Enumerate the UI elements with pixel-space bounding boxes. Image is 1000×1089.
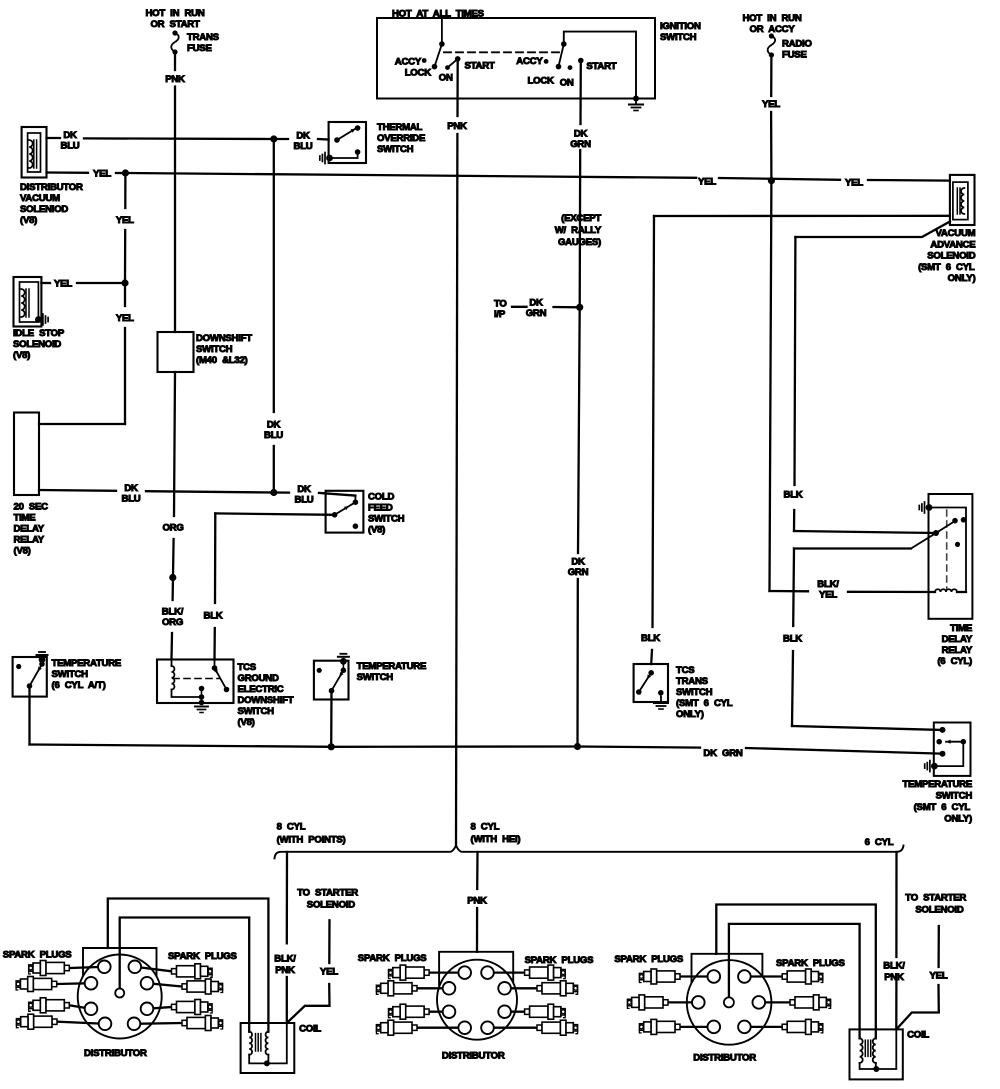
svg-text:(V8): (V8) [20,215,37,226]
svg-text:DISTRIBUTOR: DISTRIBUTOR [693,1053,756,1064]
svg-text:RELAY: RELAY [14,535,45,546]
svg-text:(SMT 6 CYL: (SMT 6 CYL [914,802,971,813]
svg-text:BLU: BLU [295,494,314,505]
svg-text:SPARK PLUGS: SPARK PLUGS [358,953,427,964]
svg-text:GAUGES): GAUGES) [558,237,601,248]
svg-text:DELAY: DELAY [942,634,973,645]
svg-text:TRANS: TRANS [187,32,220,43]
svg-text:(M40 &L32): (M40 &L32) [196,355,248,366]
svg-text:HOT IN RUN: HOT IN RUN [145,8,204,19]
svg-text:OVERRIDE: OVERRIDE [377,133,426,144]
svg-text:YEL: YEL [320,967,338,978]
svg-text:PNK: PNK [275,965,295,976]
svg-text:PNK: PNK [447,121,467,132]
svg-text:PNK: PNK [467,895,487,906]
svg-text:SWITCH: SWITCH [368,514,405,525]
svg-text:SOLENOID: SOLENOID [13,339,61,350]
svg-text:(WITH POINTS): (WITH POINTS) [277,835,346,846]
svg-text:(6 CYL): (6 CYL) [937,656,972,667]
svg-text:DISTRIBUTOR: DISTRIBUTOR [84,1048,147,1059]
svg-text:FEED: FEED [368,503,393,514]
svg-text:DISTRIBUTOR: DISTRIBUTOR [442,1051,505,1062]
svg-text:GRN: GRN [526,308,547,319]
svg-text:BLK: BLK [784,490,803,501]
svg-text:(SMT 6 CYL: (SMT 6 CYL [676,698,733,709]
svg-text:DELAY: DELAY [14,524,45,535]
svg-text:TIME: TIME [950,623,973,634]
svg-text:ON: ON [560,78,574,89]
svg-text:START: START [586,61,616,72]
svg-text:HOT AT ALL TIMES: HOT AT ALL TIMES [392,9,485,20]
svg-text:TRANS: TRANS [676,676,709,687]
svg-text:ACCY: ACCY [516,56,543,67]
svg-text:YEL: YEL [845,178,863,189]
svg-text:TIME: TIME [14,513,37,524]
svg-text:BLU: BLU [264,430,283,441]
svg-text:SWITCH: SWITCH [377,144,414,155]
svg-text:BLU: BLU [61,141,80,152]
svg-text:BLU: BLU [122,494,141,505]
svg-text:TEMPERATURE: TEMPERATURE [902,779,972,790]
svg-text:SPARK PLUGS: SPARK PLUGS [776,958,845,969]
svg-text:GRN: GRN [570,139,591,150]
svg-text:DK: DK [571,557,585,568]
svg-text:YEL: YEL [93,169,111,180]
svg-text:20 SEC: 20 SEC [14,502,49,513]
svg-text:IGNITION: IGNITION [660,21,701,32]
svg-text:VACUUM: VACUUM [935,228,975,239]
svg-text:TCS: TCS [676,665,695,676]
svg-text:OR ACCY: OR ACCY [750,24,796,35]
svg-text:SWITCH: SWITCH [936,791,973,802]
svg-text:8 CYL: 8 CYL [277,822,306,833]
svg-text:FUSE: FUSE [782,50,807,61]
svg-text:DISTRIBUTOR: DISTRIBUTOR [20,182,83,193]
svg-text:YEL: YEL [116,313,134,324]
svg-text:OR START: OR START [150,19,200,30]
svg-text:COLD: COLD [368,492,395,503]
svg-text:IDLE STOP: IDLE STOP [13,328,65,339]
svg-text:RADIO: RADIO [782,39,812,50]
svg-text:SWITCH: SWITCH [52,669,89,680]
svg-text:FUSE: FUSE [187,43,212,54]
svg-text:YEL: YEL [54,279,72,290]
svg-text:BLK/: BLK/ [883,961,905,972]
svg-text:SWITCH: SWITCH [357,672,394,683]
svg-text:PNK: PNK [165,74,185,85]
svg-text:ONLY): ONLY) [944,814,972,825]
svg-text:BLK: BLK [783,634,802,645]
svg-text:(V8): (V8) [238,717,255,728]
svg-text:YEL: YEL [819,590,837,601]
svg-text:SOLENIOD: SOLENIOD [20,204,68,215]
svg-text:DK: DK [529,298,543,309]
svg-text:(V8): (V8) [13,350,30,361]
svg-text:LOCK: LOCK [528,76,555,87]
svg-text:RELAY: RELAY [942,645,973,656]
svg-text:DK: DK [267,420,281,431]
svg-text:ORG: ORG [162,523,183,534]
svg-text:BLK: BLK [204,611,223,622]
svg-text:(V8): (V8) [368,525,385,536]
svg-text:SWITCH: SWITCH [238,706,275,717]
svg-text:SWITCH: SWITCH [196,344,233,355]
svg-text:DK: DK [296,131,310,142]
svg-text:YEL: YEL [762,99,780,110]
svg-text:ONLY): ONLY) [948,273,976,284]
svg-text:COIL: COIL [907,1030,929,1041]
svg-text:DOWNSHIFT: DOWNSHIFT [196,333,252,344]
svg-text:DK: DK [124,483,138,494]
svg-text:PNK: PNK [884,972,904,983]
svg-text:DK GRN: DK GRN [703,748,742,759]
svg-text:ELECTRIC: ELECTRIC [238,684,284,695]
svg-text:SOLENOID: SOLENOID [307,900,355,911]
svg-text:START: START [465,61,495,72]
svg-text:ON: ON [439,73,453,84]
svg-text:DK: DK [63,130,77,141]
svg-text:YEL: YEL [930,971,948,982]
svg-text:YEL: YEL [116,215,134,226]
svg-text:ACCY: ACCY [395,57,422,68]
svg-text:LOCK: LOCK [405,68,432,79]
svg-text:SOLENOID: SOLENOID [927,251,975,262]
svg-text:ORG: ORG [162,617,183,628]
svg-text:THERMAL: THERMAL [377,122,423,133]
svg-text:W/ RALLY: W/ RALLY [555,225,602,236]
svg-text:ADVANCE: ADVANCE [930,240,976,251]
svg-text:TO: TO [494,299,507,310]
svg-text:BLK/: BLK/ [162,607,184,618]
svg-text:SOLENOID: SOLENOID [915,905,963,916]
svg-text:SPARK PLUGS: SPARK PLUGS [614,954,683,965]
svg-text:ONLY): ONLY) [676,709,704,720]
svg-text:GRN: GRN [568,567,589,578]
svg-text:VACUUM: VACUUM [20,193,60,204]
svg-text:(SMT 6 CYL: (SMT 6 CYL [918,262,975,273]
svg-text:6 CYL: 6 CYL [865,837,894,848]
svg-text:BLU: BLU [294,141,313,152]
svg-text:SPARK PLUGS: SPARK PLUGS [3,950,72,961]
svg-text:(V8): (V8) [14,546,31,557]
svg-text:(EXCEPT: (EXCEPT [561,213,601,224]
svg-text:DOWNSHIFT: DOWNSHIFT [238,695,294,706]
svg-text:TCS: TCS [238,662,257,673]
svg-text:SPARK PLUGS: SPARK PLUGS [525,955,594,966]
svg-text:TEMPERATURE: TEMPERATURE [357,661,427,672]
svg-text:DK: DK [297,484,311,495]
svg-text:SWITCH: SWITCH [676,687,713,698]
svg-text:HOT IN RUN: HOT IN RUN [742,13,801,24]
svg-text:COIL: COIL [299,1024,321,1035]
svg-text:SPARK PLUGS: SPARK PLUGS [168,951,237,962]
svg-text:8 CYL: 8 CYL [471,822,500,833]
svg-text:TO STARTER: TO STARTER [297,888,358,899]
svg-text:(WITH HEI): (WITH HEI) [471,834,521,845]
svg-text:GROUND: GROUND [238,673,279,684]
svg-text:BLK/: BLK/ [817,579,839,590]
svg-text:(6 CYL A/T): (6 CYL A/T) [52,680,106,691]
svg-text:TEMPERATURE: TEMPERATURE [52,658,122,669]
svg-text:BLK/: BLK/ [274,954,296,965]
svg-text:BLK: BLK [641,633,660,644]
svg-text:SWITCH: SWITCH [660,32,697,43]
svg-text:I/P: I/P [494,309,506,320]
svg-text:YEL: YEL [698,177,716,188]
svg-text:DK: DK [574,129,588,140]
svg-text:TO STARTER: TO STARTER [905,893,966,904]
